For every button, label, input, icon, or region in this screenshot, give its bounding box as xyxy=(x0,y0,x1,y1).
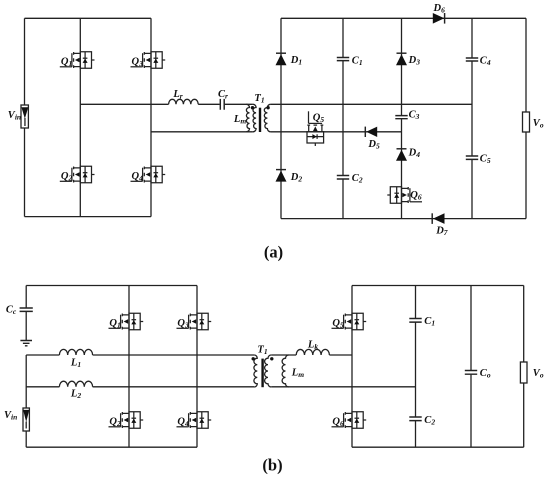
wire: bridge bottom rail (fig b) xyxy=(26,446,197,448)
svg-text:(a): (a) xyxy=(264,243,283,262)
wire: leg B to transformer primary bottom xyxy=(151,131,253,133)
capacitor C2 (fig b) xyxy=(409,417,421,421)
svg-text:Q4: Q4 xyxy=(177,416,189,428)
svg-text:C1: C1 xyxy=(424,316,435,328)
wire: L2 to transformer primary bottom xyxy=(93,386,255,388)
svg-text:C2: C2 xyxy=(352,173,363,185)
transistor Q1 (fig b) xyxy=(109,313,144,330)
transformer T1 (fig a) core xyxy=(259,108,261,132)
svg-text:Vin: Vin xyxy=(8,110,21,122)
wire: Vin to bottom rail xyxy=(25,431,27,447)
load Vo (fig b) xyxy=(520,362,527,383)
capacitor C4 xyxy=(466,58,478,61)
wire: bridge leg B xyxy=(150,18,152,216)
wire: bridge leg A xyxy=(79,18,81,216)
svg-text:Q1: Q1 xyxy=(109,318,120,330)
svg-text:Q3: Q3 xyxy=(177,318,189,330)
inductor Lm (fig a, magnetizing winding) xyxy=(246,104,249,132)
capacitor C5 xyxy=(466,156,478,159)
svg-text:D6: D6 xyxy=(433,3,446,15)
diode D5 xyxy=(365,127,377,137)
svg-text:Q6: Q6 xyxy=(410,190,422,202)
svg-text:D2: D2 xyxy=(290,172,303,184)
transformer T1 (fig b) secondary polarity dot xyxy=(270,357,273,360)
transformer T1 (fig a) primary winding xyxy=(253,104,256,132)
wire: bridge bottom rail xyxy=(25,216,152,218)
diode D7 xyxy=(432,213,444,224)
svg-text:Q6: Q6 xyxy=(332,416,344,428)
wire: secondary top rail xyxy=(281,17,526,19)
wire: bridge leg 2 (fig b) xyxy=(196,286,198,448)
transformer T1 (fig a) secondary polarity dot xyxy=(266,106,269,109)
svg-text:Q3: Q3 xyxy=(132,56,144,68)
svg-text:D3: D3 xyxy=(408,55,421,66)
wire: right edge lower xyxy=(525,132,527,219)
wire: C4/C5 leg xyxy=(471,18,473,218)
svg-text:C4: C4 xyxy=(480,55,491,67)
diode D2 xyxy=(276,170,287,182)
wire: left edge lower (Vin bottom to bottom rail) xyxy=(24,128,26,217)
transformer T1 (fig b) primary polarity dot xyxy=(252,357,255,360)
svg-text:L1: L1 xyxy=(70,358,81,370)
svg-text:C5: C5 xyxy=(480,154,491,166)
wire: bridge top rail xyxy=(25,17,152,19)
wire: Lk to half-bridge leg xyxy=(329,354,352,356)
svg-text:L2: L2 xyxy=(70,389,81,401)
wire: left edge upper (Vin top to top rail) xyxy=(24,18,26,105)
wire: leg A midpoint to Lr xyxy=(80,103,168,105)
capacitor Cc stem top xyxy=(25,286,27,308)
wire: half-bridge leg (fig b) xyxy=(351,286,353,448)
inductor L1 xyxy=(59,349,92,355)
svg-text:D7: D7 xyxy=(435,226,448,238)
svg-text:(b): (b) xyxy=(262,456,282,475)
transformer T1 (fig a) primary polarity dot xyxy=(251,106,254,109)
capacitor Co xyxy=(465,371,477,375)
wire: C1/C2 leg (fig b) xyxy=(415,286,417,448)
wire: secondary mid rail xyxy=(271,103,472,105)
wire: right edge upper (fig b) xyxy=(523,286,525,363)
transistor Q3 xyxy=(131,52,166,69)
capacitor C1 xyxy=(337,58,349,61)
svg-text:Co: Co xyxy=(480,368,491,380)
svg-text:T1: T1 xyxy=(257,344,267,356)
transformer T1 (fig a) secondary winding xyxy=(264,104,270,132)
wire: Cr to transformer primary xyxy=(225,103,253,105)
svg-text:C1: C1 xyxy=(352,55,363,67)
svg-text:Q5: Q5 xyxy=(332,318,344,330)
transformer T1 (fig b) secondary winding xyxy=(265,355,272,387)
diode D1 xyxy=(276,53,287,65)
svg-text:Q4: Q4 xyxy=(132,171,144,183)
diode D6 xyxy=(433,13,445,24)
wire: L1 to transformer primary top xyxy=(93,354,255,356)
capacitor C1 (fig b) xyxy=(409,319,421,323)
transistor Q6 (fig a, mirrored) xyxy=(387,187,422,204)
inductor Lr xyxy=(169,99,199,104)
ground xyxy=(20,341,32,346)
svg-text:Lk: Lk xyxy=(307,339,318,351)
wire: output bottom rail (fig b) xyxy=(352,446,524,448)
svg-text:Cc: Cc xyxy=(6,305,17,317)
svg-text:Vo: Vo xyxy=(533,118,544,130)
transistor Q1 xyxy=(60,52,95,69)
load Vo (fig a) xyxy=(523,112,530,132)
svg-text:Q2: Q2 xyxy=(61,171,73,183)
wire: Co leg xyxy=(470,286,472,448)
wire: right edge upper xyxy=(525,18,527,112)
transformer T1 (fig b) primary winding xyxy=(254,355,257,387)
wire: secondary lower wire (to Q5 and D5) xyxy=(271,131,402,133)
wire: bridge leg 1 (fig b) xyxy=(128,286,130,448)
transformer T1 (fig b) core xyxy=(261,359,263,388)
wire: D1/D2 leg xyxy=(280,18,282,218)
svg-text:D5: D5 xyxy=(367,139,380,151)
transistor Q2 (fig b) xyxy=(109,412,144,429)
svg-text:Cr: Cr xyxy=(218,89,228,101)
wire: Cc to ground xyxy=(25,311,27,340)
svg-text:C3: C3 xyxy=(409,110,420,122)
inductor Lk xyxy=(296,349,329,355)
svg-text:Lm: Lm xyxy=(291,367,304,379)
svg-text:Q1: Q1 xyxy=(61,56,72,68)
wire: secondary bottom rail xyxy=(281,218,526,220)
wire: L1 wire left xyxy=(26,354,59,356)
capacitor Cr xyxy=(220,99,224,110)
svg-text:Q5: Q5 xyxy=(313,113,325,125)
svg-text:C2: C2 xyxy=(424,415,435,427)
transistor Q3 (fig b) xyxy=(177,313,212,330)
wire: bridge top rail (fig b) xyxy=(26,285,197,287)
wire: secondary bottom to capacitor midpoint xyxy=(271,386,415,388)
capacitor C2 xyxy=(337,176,349,180)
svg-text:Lm: Lm xyxy=(233,114,246,126)
source Vin (fig a) xyxy=(21,105,28,128)
wire: L2 wire left xyxy=(26,386,59,388)
inductor L2 xyxy=(59,381,92,387)
svg-text:Q2: Q2 xyxy=(109,416,121,428)
wire: C1/C2 leg xyxy=(342,18,344,218)
capacitor C3 xyxy=(395,116,407,119)
transistor Q2 xyxy=(60,166,95,183)
transistor Q4 xyxy=(131,166,166,183)
inductor Lm (fig b) xyxy=(282,355,289,387)
wire: right edge lower (fig b) xyxy=(523,383,525,447)
wire: D3/C3/D4/Q6 leg xyxy=(401,18,403,218)
svg-text:Vin: Vin xyxy=(4,410,17,422)
svg-text:D1: D1 xyxy=(290,55,302,67)
svg-text:Lr: Lr xyxy=(172,89,182,101)
diode D4 xyxy=(396,149,407,161)
wire: output top rail (fig b) xyxy=(352,285,524,287)
wire: secondary top to Lk xyxy=(271,354,296,356)
capacitor Cc xyxy=(20,308,33,311)
source Vin (fig b) xyxy=(23,408,29,431)
transistor Q5 (fig b) xyxy=(332,313,367,330)
wire: left rail (L1 to Vin) xyxy=(25,355,27,408)
wire: Lr to Cr xyxy=(198,103,220,105)
diode D3 xyxy=(396,53,407,65)
transistor Q4 (fig b) xyxy=(177,412,212,429)
transistor Q5 (fig a, rotated) xyxy=(307,111,324,146)
svg-text:D4: D4 xyxy=(408,148,421,160)
svg-text:T1: T1 xyxy=(254,93,264,105)
svg-text:Vo: Vo xyxy=(533,368,544,380)
transistor Q6 (fig b) xyxy=(332,412,367,429)
